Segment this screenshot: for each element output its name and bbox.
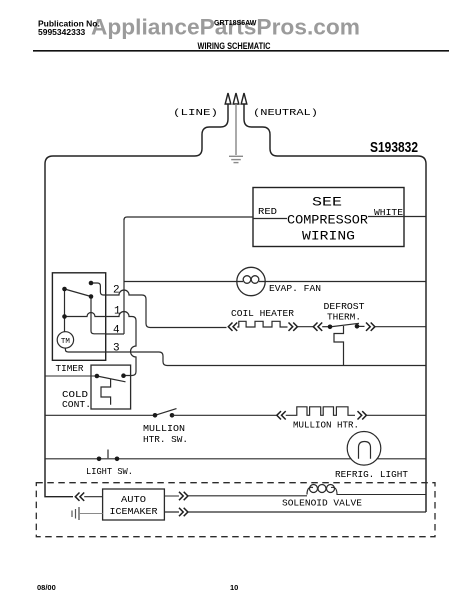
label TM (timer motor): [57, 332, 73, 348]
cold control switch: [97, 376, 126, 405]
wire WHITE: compressor to right bus: [404, 216, 426, 218]
refrigerator light bulb: [347, 432, 381, 466]
svg-text:COMPRESSOR: COMPRESSOR: [287, 214, 369, 228]
wire timer contact C down to terminal 4 (with hop under terminal1 wire): [91, 297, 106, 334]
connector chevrons >> after coil heater: [289, 323, 298, 331]
svg-text:DEFROST: DEFROST: [324, 301, 365, 312]
compressor box U100: [253, 188, 404, 247]
svg-text:5995342333: 5995342333: [38, 27, 86, 37]
wire red feeder vertical: down to timer terminal 4: [123, 219, 125, 334]
connector chevrons >> icemaker lower output: [179, 508, 188, 516]
evap fan motor B1: [237, 267, 265, 295]
connector chevrons >> after mullion heater: [358, 411, 367, 419]
mullion switch contact dots: [153, 413, 158, 418]
svg-text:08/00: 08/00: [37, 583, 56, 592]
plug prong middle: [233, 93, 239, 104]
mullion heater switch: [155, 409, 177, 416]
wire timer terminal 4 to feeder: [106, 333, 124, 335]
light switch (door plunger): [107, 450, 109, 459]
svg-text:COIL HEATER: COIL HEATER: [231, 308, 294, 319]
wire icemaker to solenoid: [164, 495, 307, 497]
svg-text:THERM.: THERM.: [327, 312, 361, 323]
wire RED: compressor to vertical feeder: [124, 217, 253, 220]
connector chevrons >> icemaker upper output: [179, 492, 188, 500]
plug prong left: [225, 93, 231, 104]
connector chevrons << icemaker feed: [75, 493, 84, 501]
svg-text:ICEMAKER: ICEMAKER: [110, 506, 158, 517]
defrost thermostat actuator step to neutral line: [334, 326, 344, 366]
light switch contact dots: [97, 457, 102, 462]
svg-text:(LINE): (LINE): [173, 107, 218, 118]
wire icemaker feed: [84, 496, 102, 498]
wire terminal 3 to neutral line: [106, 352, 426, 366]
auto icemaker box: [103, 489, 165, 520]
svg-text:MULLION HTR.: MULLION HTR.: [293, 420, 359, 431]
wire LINE: prong to left bus, down left side, into icemaker: [45, 104, 228, 497]
wire timer B down to node D and TM motor: [64, 289, 66, 332]
svg-text:WIRING SCHEMATIC: WIRING SCHEMATIC: [198, 41, 271, 51]
svg-text:(NEUTRAL): (NEUTRAL): [253, 107, 318, 118]
svg-text:3: 3: [113, 343, 120, 355]
svg-text:10: 10: [230, 583, 238, 592]
solenoid valve coil L1: [307, 485, 426, 495]
svg-text:RED: RED: [258, 207, 277, 217]
wire icemaker lower return to right bus: [164, 511, 426, 513]
wire timer blade B-C: [65, 289, 92, 297]
wire NEUTRAL: prong to right bus, down right side: [244, 104, 426, 512]
svg-text:MULLION: MULLION: [143, 423, 185, 434]
wire terminal 1 to cold control (hop over feeder, hop over t3 wire): [106, 312, 136, 376]
wire mullion line from left bus: [45, 414, 155, 416]
svg-text:SOLENOID VALVE: SOLENOID VALVE: [282, 498, 362, 509]
defrost thermostat switch: [322, 323, 364, 365]
wire WHITE stub inside box: [368, 216, 404, 218]
wire mullion heater to right bus: [366, 414, 426, 416]
wire cold control feed from line bus: [45, 375, 97, 377]
svg-text:SEE: SEE: [312, 196, 342, 210]
svg-text:HTR. SW.: HTR. SW.: [143, 434, 188, 445]
svg-text:GRT18S6AW: GRT18S6AW: [214, 20, 257, 27]
svg-text:CONT.: CONT.: [62, 399, 91, 410]
timer box: [52, 273, 105, 361]
icemaker fill-tube ground symbol: [72, 507, 79, 520]
svg-text:REFRIG. LIGHT: REFRIG. LIGHT: [335, 469, 408, 480]
wire defrost to right bus: [375, 326, 426, 328]
wire switch to mullion heater: [172, 414, 277, 416]
wire RED stub inside box: [253, 218, 287, 220]
svg-text:AppliancePartsPros.com: AppliancePartsPros.com: [91, 15, 360, 40]
defrost thermostat contact dots: [328, 325, 333, 330]
connector chevrons << before mullion heater: [277, 411, 286, 419]
header rule: [33, 50, 449, 52]
wire light line from left bus: [45, 458, 426, 460]
connector chevrons >> after defrost: [366, 323, 375, 331]
coil heater element: [237, 321, 287, 327]
svg-text:AUTO: AUTO: [121, 494, 146, 505]
connector chevrons << before defrost: [313, 323, 322, 331]
svg-text:TIMER: TIMER: [56, 363, 84, 374]
wire terminal 1: node D to exit, hop over C wire: [65, 313, 106, 317]
wire icemaker lower left: [79, 513, 103, 515]
wire coil heater to defrost therm: [297, 326, 314, 328]
connector chevrons << before coil heater: [228, 323, 237, 331]
svg-text:S193832: S193832: [370, 140, 418, 156]
svg-text:EVAP. FAN: EVAP. FAN: [269, 283, 321, 294]
svg-text:1: 1: [114, 306, 121, 318]
plug prong right: [241, 93, 247, 104]
svg-text:WIRING: WIRING: [302, 230, 355, 244]
cold control box: [91, 365, 131, 409]
label SEE COMPRESSOR WIRING: [287, 196, 369, 244]
wire TM motor to terminal 3 exit: [65, 348, 105, 352]
wire evap fan line: [124, 281, 426, 283]
svg-text:LIGHT SW.: LIGHT SW.: [86, 466, 133, 477]
svg-text:TM: TM: [61, 338, 71, 346]
ground prong stem: [235, 104, 237, 155]
cold control contact dots: [95, 374, 100, 379]
ground symbol: [229, 156, 243, 162]
wire timer contact A to terminal 2 exit: [91, 283, 106, 295]
icemaker compartment dashed boundary: [36, 483, 435, 537]
wire terminal 2 to coil heater (hop over feeder): [106, 290, 227, 328]
timer contact dots: [89, 281, 94, 286]
svg-text:4: 4: [113, 325, 120, 337]
mullion heater element: [286, 407, 355, 416]
